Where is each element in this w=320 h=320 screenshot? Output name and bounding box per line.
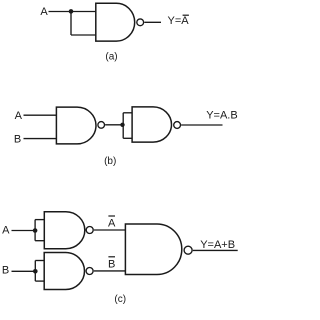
tie stub bottom A (fig c) [35, 240, 44, 242]
svg-text:A: A [40, 6, 48, 18]
wire A to junction [12, 230, 36, 232]
wire A to gate1 [24, 114, 57, 116]
svg-text:B: B [14, 134, 21, 146]
svg-text:(a): (a) [105, 52, 117, 63]
NAND gate U4 (fig c upper inverter) [44, 212, 85, 249]
caption (a) [105, 52, 117, 63]
tie stub bottom (fig b) [123, 137, 132, 139]
bubble of U3 [174, 122, 181, 129]
caption (c) [114, 294, 126, 305]
svg-text:B: B [2, 264, 9, 276]
node B (input label, fig c) [2, 264, 9, 276]
junction dot A (fig c) [33, 228, 38, 233]
output wire (fig a) [144, 21, 161, 23]
tie bar vertical (fig b) [122, 113, 124, 139]
wire Abar to big gate [94, 229, 126, 231]
output wire (fig b) [181, 124, 222, 126]
node B (input label, fig b) [14, 134, 21, 146]
wire junction down [70, 12, 72, 36]
NAND gate U5 (fig c lower inverter) [44, 253, 84, 290]
junction dot B (fig c) [33, 269, 38, 274]
node A (input label, fig c) [2, 225, 10, 237]
tie stub top B (fig c) [35, 260, 44, 262]
output bubble (fig a) [137, 19, 144, 26]
svg-text:Y=A+B: Y=A+B [200, 239, 235, 251]
tie stub top (fig b) [123, 112, 132, 114]
overbar on Bbar label [108, 256, 115, 257]
node Bbar label [108, 259, 115, 271]
tie stub bottom B (fig c) [35, 280, 44, 282]
svg-text:(b): (b) [104, 156, 116, 167]
wire U2 output to junction [105, 124, 123, 126]
junction dot (fig b) [120, 123, 124, 127]
svg-text:A: A [108, 218, 116, 230]
caption (b) [104, 156, 116, 167]
node Y=Abar (output label, fig a) [168, 15, 190, 27]
svg-text:(c): (c) [114, 294, 126, 305]
node A (input label, fig b) [15, 110, 23, 122]
bubble of U6 [184, 246, 192, 254]
wire B to junction [12, 270, 36, 272]
overbar on Abar label [108, 215, 115, 216]
overbar on A (fig a) [183, 15, 189, 16]
NAND gate U6 (fig c output gate) [125, 224, 181, 275]
svg-text:B: B [108, 259, 115, 271]
tie stub top A (fig c) [35, 219, 44, 221]
junction dot on A wire [69, 9, 74, 14]
bubble of U5 [86, 268, 93, 275]
svg-text:Y=A.B: Y=A.B [206, 109, 238, 121]
wire Bbar to big gate [94, 270, 126, 272]
svg-text:Y=A: Y=A [168, 15, 190, 27]
bubble of U4 [86, 227, 93, 234]
wire A to gate top input [49, 11, 96, 13]
tie bar vertical A (fig c) [34, 220, 36, 241]
NAND gate U3 (fig b second) [132, 107, 171, 142]
wire B to gate1 [24, 138, 57, 140]
output wire (fig c) [193, 249, 238, 251]
bubble of U2 [98, 122, 105, 129]
NAND gate U1 (fig a) [96, 3, 135, 41]
node Abar label [108, 218, 116, 230]
node Y=A+B (output label, fig c) [200, 239, 235, 251]
NAND gate U2 (fig b first) [56, 107, 96, 144]
tie bar vertical B (fig c) [34, 261, 36, 282]
node A (input label, fig a) [40, 6, 48, 18]
svg-text:A: A [15, 110, 23, 122]
node Y=A.B (output label, fig b) [206, 109, 238, 121]
wire to gate bottom input [71, 34, 96, 36]
svg-text:A: A [2, 225, 10, 237]
